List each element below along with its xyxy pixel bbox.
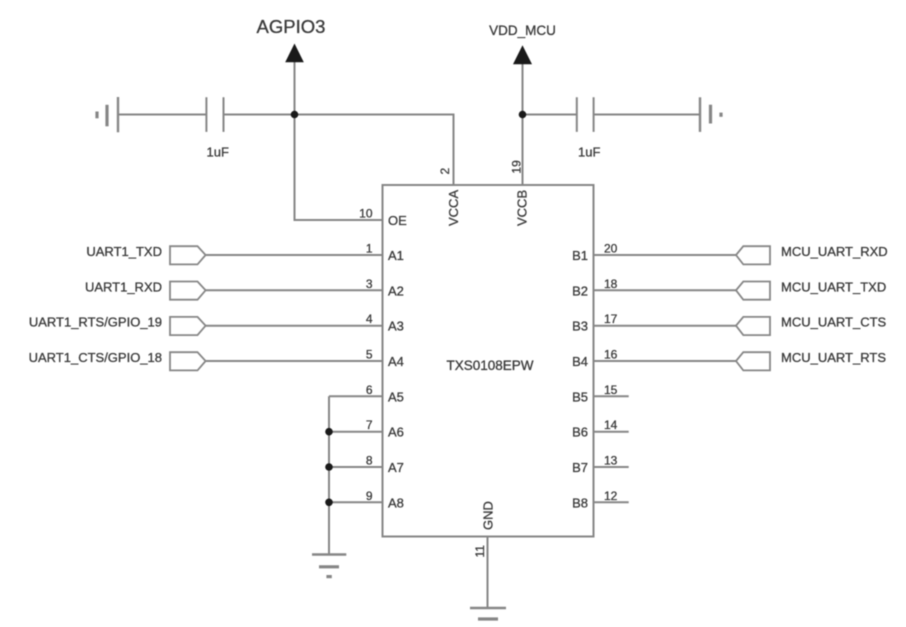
svg-text:MCU_UART_RXD: MCU_UART_RXD (781, 244, 888, 259)
svg-text:B3: B3 (572, 319, 588, 334)
svg-text:UART1_RTS/GPIO_19: UART1_RTS/GPIO_19 (29, 315, 162, 330)
svg-text:B6: B6 (572, 425, 588, 440)
svg-text:17: 17 (604, 312, 618, 326)
svg-text:B8: B8 (572, 495, 588, 510)
svg-text:20: 20 (604, 242, 618, 256)
svg-text:18: 18 (604, 277, 618, 291)
svg-text:16: 16 (604, 348, 618, 362)
svg-text:UART1_TXD: UART1_TXD (86, 244, 162, 259)
svg-text:UART1_RXD: UART1_RXD (85, 279, 162, 294)
svg-text:VCCA: VCCA (446, 190, 461, 226)
svg-text:VDD_MCU: VDD_MCU (489, 23, 556, 38)
svg-text:12: 12 (604, 489, 618, 503)
svg-text:8: 8 (366, 454, 373, 468)
svg-text:B7: B7 (572, 460, 588, 475)
svg-text:B4: B4 (572, 354, 588, 369)
svg-text:A3: A3 (388, 319, 404, 334)
svg-text:11: 11 (473, 545, 487, 558)
svg-text:B2: B2 (572, 283, 588, 298)
svg-text:A8: A8 (388, 495, 404, 510)
svg-text:1uF: 1uF (578, 145, 600, 160)
svg-text:7: 7 (366, 418, 373, 432)
svg-text:B5: B5 (572, 389, 588, 404)
svg-text:1: 1 (366, 242, 373, 256)
svg-text:A1: A1 (388, 248, 404, 263)
svg-text:3: 3 (366, 277, 373, 291)
svg-text:A7: A7 (388, 460, 404, 475)
svg-text:B1: B1 (572, 248, 588, 263)
svg-text:AGPIO3: AGPIO3 (257, 16, 326, 37)
svg-text:6: 6 (366, 383, 373, 397)
svg-text:A4: A4 (388, 354, 404, 369)
svg-text:5: 5 (366, 348, 373, 362)
svg-text:TXS0108EPW: TXS0108EPW (446, 358, 533, 373)
svg-text:2: 2 (438, 168, 452, 175)
svg-text:VCCB: VCCB (515, 190, 530, 226)
svg-text:15: 15 (604, 383, 618, 397)
svg-text:GND: GND (481, 501, 496, 530)
svg-text:UART1_CTS/GPIO_18: UART1_CTS/GPIO_18 (29, 350, 162, 365)
svg-text:MCU_UART_RTS: MCU_UART_RTS (781, 350, 886, 365)
svg-text:1uF: 1uF (207, 145, 229, 160)
svg-text:A5: A5 (388, 389, 404, 404)
svg-text:OE: OE (388, 213, 407, 228)
svg-text:19: 19 (510, 160, 524, 174)
svg-text:14: 14 (604, 418, 618, 432)
svg-text:13: 13 (604, 454, 618, 468)
svg-text:A2: A2 (388, 283, 404, 298)
svg-text:MCU_UART_CTS: MCU_UART_CTS (781, 315, 887, 330)
svg-text:9: 9 (366, 489, 373, 503)
svg-text:MCU_UART_TXD: MCU_UART_TXD (781, 279, 886, 294)
svg-text:10: 10 (359, 207, 373, 221)
svg-text:A6: A6 (388, 425, 404, 440)
svg-text:4: 4 (366, 312, 373, 326)
